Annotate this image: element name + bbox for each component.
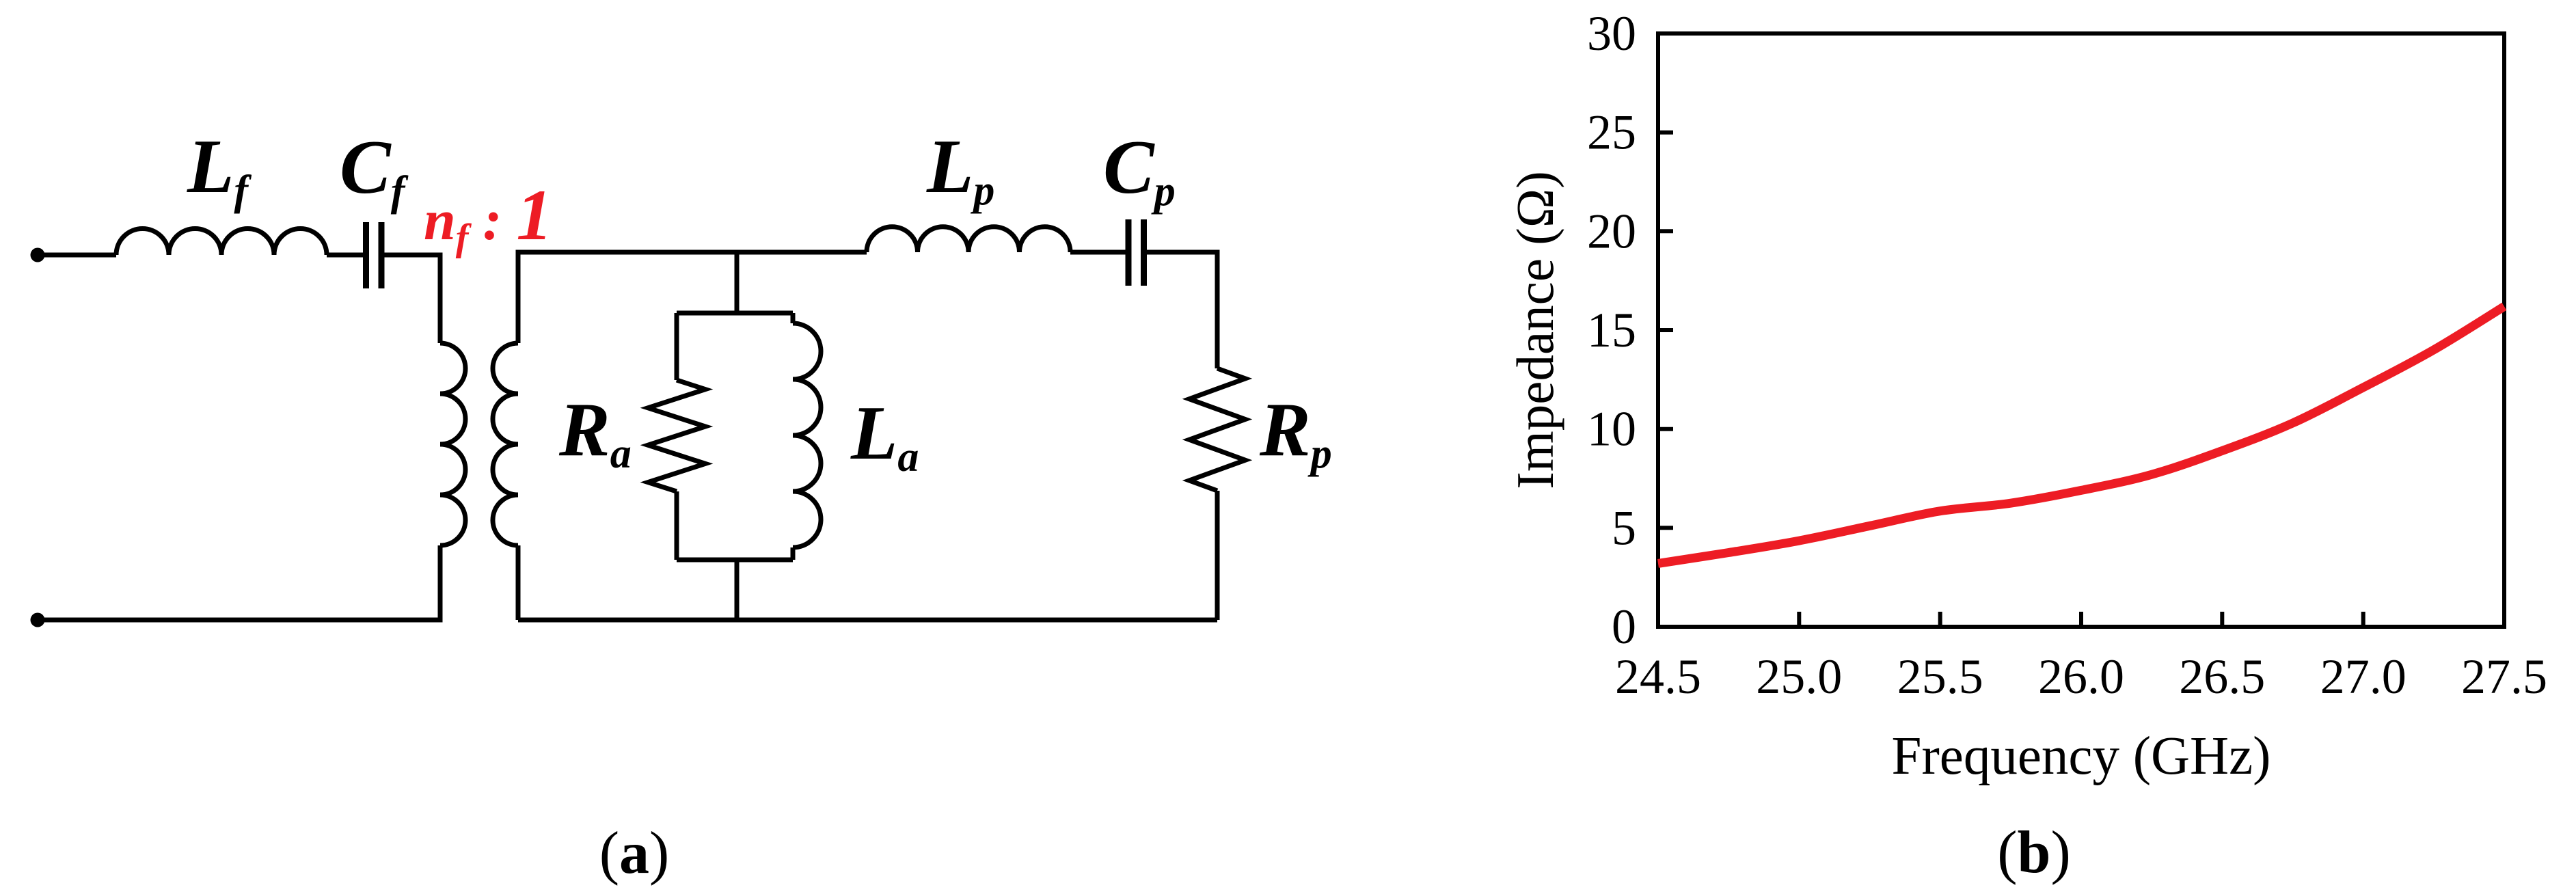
wire: block bottom bar: [677, 558, 793, 563]
resistor R_p: [1189, 368, 1245, 491]
wire: block bottom to ground rail: [735, 560, 740, 620]
svg-text:(b): (b): [1997, 819, 2071, 886]
svg-text:25.0: 25.0: [1756, 649, 1842, 704]
svg-text:25.5: 25.5: [1897, 649, 1983, 704]
wire: block top bar: [677, 311, 793, 316]
wire: primary bottom lead: [38, 545, 440, 620]
svg-text:15: 15: [1587, 303, 1636, 357]
wire: Ra bottom lead: [675, 491, 679, 560]
wire: Lf to Cf: [327, 253, 363, 258]
svg-text:30: 30: [1587, 6, 1636, 61]
wire: Ra top lead: [675, 313, 679, 380]
svg-text:10: 10: [1587, 402, 1636, 457]
svg-text:24.5: 24.5: [1615, 649, 1701, 704]
wire: La bottom lead: [791, 547, 796, 560]
chart y-axis ticks: [1658, 133, 1673, 528]
node: input terminal top: [31, 248, 45, 262]
inductor L_f: [116, 229, 327, 256]
svg-text:26.0: 26.0: [2038, 649, 2124, 704]
svg-text:26.5: 26.5: [2179, 649, 2265, 704]
wire: secondary bottom lead: [516, 545, 521, 620]
wire: Cp to Rp: [1147, 252, 1217, 368]
inductor L_a: [793, 323, 821, 547]
wire: Rp bottom lead: [1215, 491, 1220, 620]
node: input terminal bottom: [31, 613, 45, 627]
wire: Cf to transformer primary: [385, 255, 441, 343]
svg-text:27.0: 27.0: [2320, 649, 2406, 704]
resistor R_a: [648, 380, 705, 491]
capacitor C_f: [363, 222, 385, 288]
impedance curve (red): [1658, 306, 2504, 563]
wire: secondary top lead: [518, 252, 867, 343]
svg-text:27.5: 27.5: [2461, 649, 2547, 704]
svg-text:Impedance (Ω): Impedance (Ω): [1506, 171, 1564, 489]
wire: secondary bottom rail: [518, 618, 1217, 623]
inductor L_p: [867, 227, 1070, 252]
svg-text:(a): (a): [599, 820, 670, 886]
transformer T1 secondary winding: [493, 343, 518, 545]
wire: La top lead: [791, 313, 796, 323]
chart (b): axes frame: [1658, 33, 2504, 627]
capacitor C_p: [1126, 219, 1148, 286]
svg-text:20: 20: [1587, 204, 1636, 258]
svg-text:5: 5: [1612, 500, 1636, 555]
wire: input to Lf: [38, 253, 116, 258]
wire: Lp to Cp: [1070, 250, 1126, 255]
svg-text:25: 25: [1587, 105, 1636, 160]
wire: junction to Ra-La block top: [735, 252, 740, 313]
svg-text:0: 0: [1612, 599, 1636, 654]
svg-text:Frequency (GHz): Frequency (GHz): [1892, 727, 2271, 786]
transformer T1 primary winding: [440, 343, 465, 545]
chart x-axis ticks: [1799, 612, 2363, 627]
